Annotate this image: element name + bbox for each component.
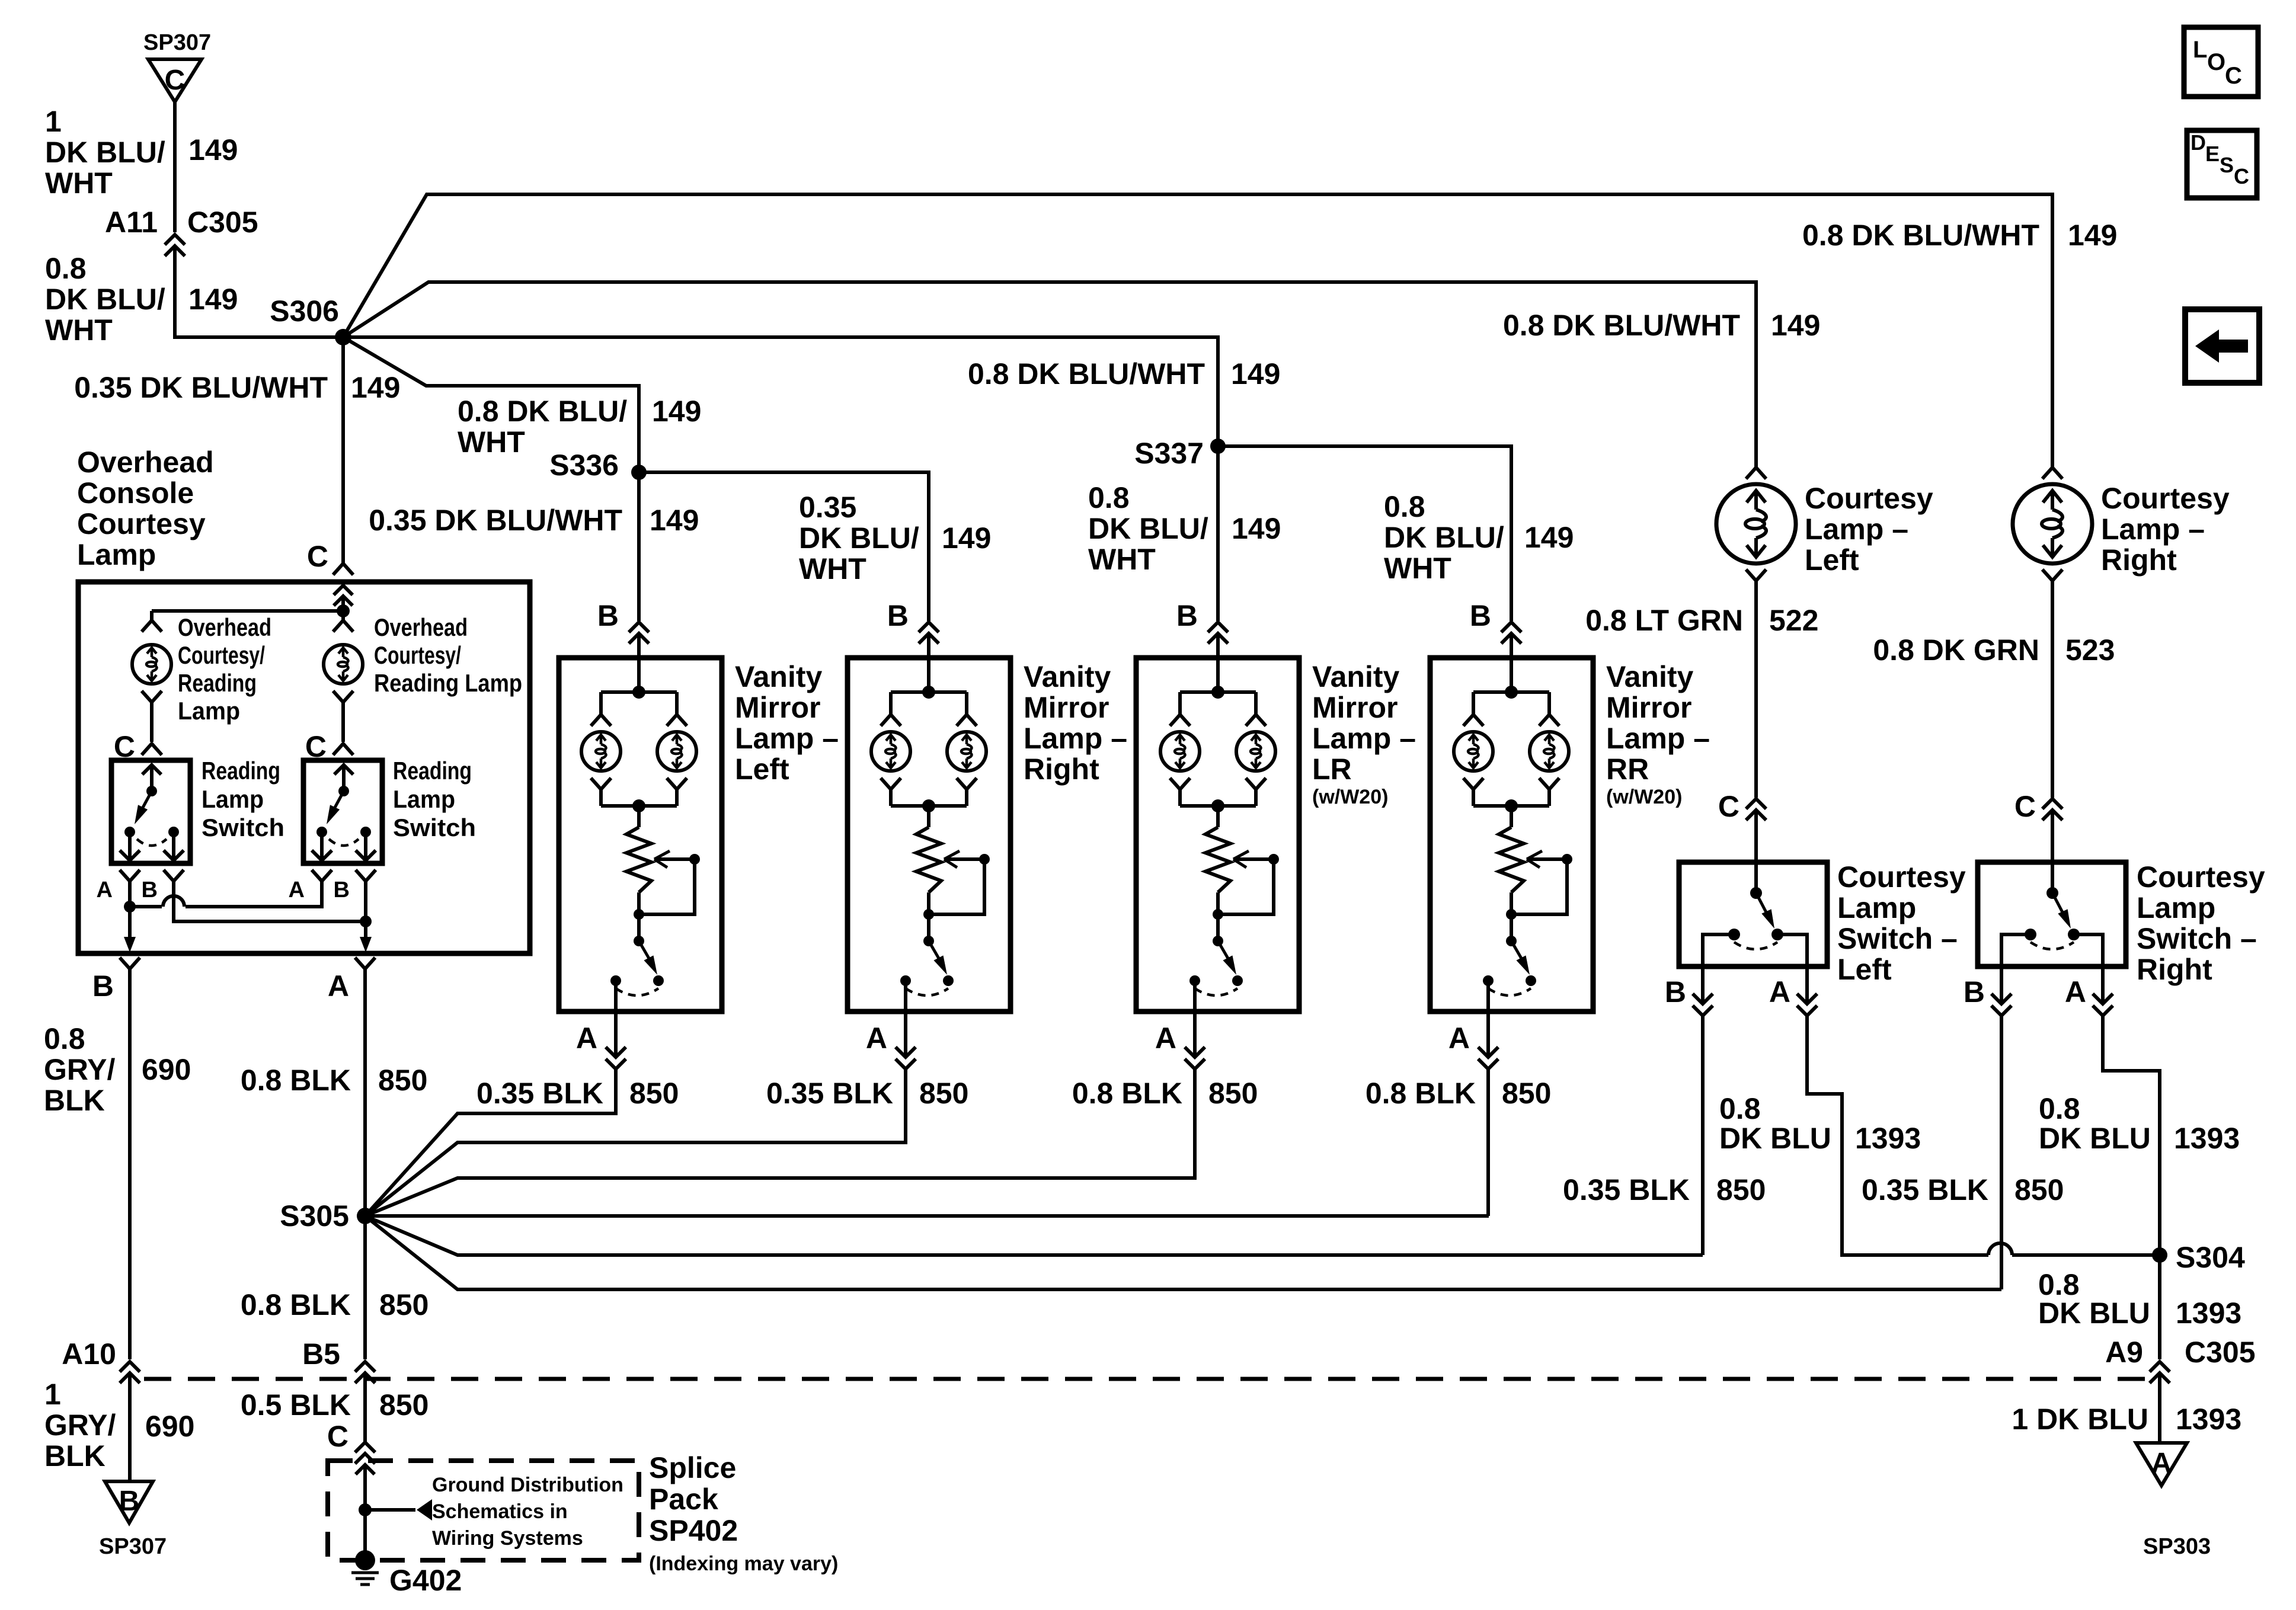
in-line connector C305 pin B5 xyxy=(355,1362,375,1372)
svg-text:A9: A9 xyxy=(2105,1336,2143,1369)
splice junction S337 xyxy=(1210,438,1226,454)
terminal fork below left bulb (LR) xyxy=(1170,778,1190,789)
svg-text:Lamp –: Lamp – xyxy=(1312,722,1416,755)
svg-text:Courtesy: Courtesy xyxy=(2101,482,2230,515)
wire lamp bus (LR) xyxy=(1180,690,1256,694)
connector chevrons pin B (Left) xyxy=(1693,994,1713,1004)
entry chevron into splice pack xyxy=(356,1465,375,1474)
wire C305 to S306 corner xyxy=(175,246,337,337)
node switch common (Right) xyxy=(2046,887,2058,899)
wire to left bulb (LR) xyxy=(1178,692,1182,714)
terminal fork above right bulb (RR) xyxy=(1539,715,1559,726)
svg-text:GRY/: GRY/ xyxy=(44,1053,115,1086)
svg-text:Courtesy: Courtesy xyxy=(1837,860,1966,894)
svg-text:0.8: 0.8 xyxy=(1719,1092,1761,1125)
svg-text:Pack: Pack xyxy=(649,1483,718,1516)
switch common chevron (right reading switch) xyxy=(334,765,353,774)
wire S306 to courtesy lamp left (rail y476) xyxy=(343,282,1756,467)
contact open (RR) xyxy=(1526,975,1536,986)
svg-text:1393: 1393 xyxy=(2174,1122,2240,1155)
wire A9 to SP303 triangle xyxy=(2158,1373,2161,1443)
in-line connector C305 pin A9 xyxy=(2150,1362,2170,1372)
node lower bus junction (Left) xyxy=(632,799,645,812)
wire wiper short (RR) xyxy=(1511,859,1567,914)
wire console pin B exit xyxy=(128,907,132,941)
wire bus to rheostat (LR) xyxy=(1216,806,1220,827)
svg-text:Lamp –: Lamp – xyxy=(735,722,839,755)
lamp bulb left bulb (LR) xyxy=(1160,732,1200,771)
svg-text:Lamp –: Lamp – xyxy=(1606,722,1710,755)
terminal fork above right bulb (Right) xyxy=(957,715,977,726)
splice junction S305 xyxy=(357,1208,373,1224)
svg-text:C305: C305 xyxy=(187,206,258,239)
node wiper top (Right) xyxy=(979,854,990,865)
svg-text:Courtesy: Courtesy xyxy=(2137,860,2265,894)
svg-text:149: 149 xyxy=(1524,521,1574,554)
svg-text:DK BLU/: DK BLU/ xyxy=(799,521,919,555)
terminal fork above right overhead lamp xyxy=(333,620,353,632)
lamp Overhead Courtesy/Reading Lamp (left) xyxy=(132,645,171,684)
svg-text:A: A xyxy=(328,969,349,1003)
svg-text:Overhead: Overhead xyxy=(374,613,468,641)
wire A10 to SP307 triangle xyxy=(128,1373,132,1481)
svg-text:Lamp: Lamp xyxy=(1837,891,1916,924)
contact A (right reading switch) xyxy=(316,827,327,837)
svg-text:Splice: Splice xyxy=(649,1451,736,1484)
wire console A to S305 xyxy=(363,969,367,1216)
wire courtesy lamp Right to switch xyxy=(2051,581,2054,798)
terminal fork above left bulb (LR) xyxy=(1170,715,1190,726)
connector fork left reading switch xyxy=(142,744,162,755)
terminal fork above left bulb (Right) xyxy=(881,715,901,726)
svg-text:C: C xyxy=(2014,790,2036,823)
wire S306 down to overhead console xyxy=(341,337,345,563)
svg-text:523: 523 xyxy=(2065,633,2115,667)
svg-text:Lamp: Lamp xyxy=(77,538,156,571)
svg-text:Mirror: Mirror xyxy=(1024,691,1109,724)
svg-text:Vanity: Vanity xyxy=(1606,660,1693,693)
lamp bulb left bulb (Left) xyxy=(581,732,621,771)
svg-text:0.8 DK BLU/WHT: 0.8 DK BLU/WHT xyxy=(1802,219,2039,252)
terminal fork below right bulb (Left) xyxy=(667,778,687,789)
terminal fork above left overhead lamp xyxy=(142,620,162,632)
wire to right bulb (Left) xyxy=(675,692,679,714)
svg-text:522: 522 xyxy=(1769,604,1818,637)
svg-text:(Indexing may vary): (Indexing may vary) xyxy=(649,1553,838,1575)
node wiper tie (Left) xyxy=(634,909,644,920)
component box Vanity Mirror Lamp RR xyxy=(1430,658,1593,1012)
svg-text:B: B xyxy=(1176,599,1198,632)
svg-text:(w/W20): (w/W20) xyxy=(1606,786,1682,808)
wire below right bulb (Left) xyxy=(675,790,679,806)
svg-text:Courtesy: Courtesy xyxy=(1805,482,1933,515)
svg-text:Mirror: Mirror xyxy=(1312,691,1398,724)
dashed box Splice Pack SP402 xyxy=(328,1461,639,1560)
wire to right bulb (RR) xyxy=(1547,692,1551,714)
svg-text:WHT: WHT xyxy=(1384,552,1451,585)
in-line connector C305 pin A10 xyxy=(120,1362,140,1372)
contact B (Left) xyxy=(1728,929,1740,940)
svg-text:A: A xyxy=(1769,975,1790,1009)
wire contact to pin A (Left) xyxy=(1777,934,1807,1004)
wire courtesy lamp Left to switch xyxy=(1754,581,1758,798)
svg-text:850: 850 xyxy=(1208,1077,1258,1110)
terminal fork below pin A xyxy=(120,870,140,881)
svg-text:A: A xyxy=(866,1022,887,1055)
wire lower bus (Right) xyxy=(891,804,967,808)
svg-text:DK BLU: DK BLU xyxy=(2038,1297,2150,1330)
svg-text:S305: S305 xyxy=(280,1199,349,1233)
contact A (left reading switch) xyxy=(124,827,135,837)
svg-text:B: B xyxy=(1964,975,1985,1009)
svg-text:C: C xyxy=(2234,164,2249,188)
connector chevrons pin B (Right) xyxy=(1991,994,2012,1004)
svg-text:0.8 BLK: 0.8 BLK xyxy=(241,1288,351,1321)
svg-text:Lamp: Lamp xyxy=(202,785,264,813)
node console feed junction xyxy=(337,604,350,617)
wire S305 to vanity LR xyxy=(365,1178,1195,1216)
connector chevrons pin A (Left) xyxy=(606,1047,626,1057)
terminal fork below courtesy lamp Left xyxy=(1746,569,1766,581)
node wiper top (RR) xyxy=(1562,854,1572,865)
node wiper tie (Right) xyxy=(923,909,934,920)
connector chevrons pin C (Right) xyxy=(2042,799,2062,809)
svg-text:C: C xyxy=(1718,790,1739,823)
contact A (Right) xyxy=(2068,929,2080,940)
svg-text:S304: S304 xyxy=(2176,1241,2245,1274)
wire lower bus (LR) xyxy=(1180,804,1256,808)
terminal fork below left overhead lamp xyxy=(142,691,162,702)
svg-text:Lamp: Lamp xyxy=(178,697,240,725)
svg-text:149: 149 xyxy=(2068,219,2117,252)
wire pin B into box (Right) xyxy=(927,633,930,692)
component box Reading Lamp Switch (right) xyxy=(303,760,382,863)
splice junction S336 xyxy=(631,465,647,480)
terminal fork below left bulb (Right) xyxy=(881,778,901,789)
svg-text:A: A xyxy=(576,1022,597,1055)
terminal fork below right bulb (RR) xyxy=(1539,778,1559,789)
terminal fork below right bulb (LR) xyxy=(1246,778,1266,789)
wire S337 to vanity mirror lamp RR xyxy=(1218,446,1511,621)
wire switch common (Left) xyxy=(1754,862,1758,893)
wire rheostat bottom (Right) xyxy=(927,892,930,941)
svg-text:DK BLU: DK BLU xyxy=(2039,1122,2151,1155)
svg-text:(w/W20): (w/W20) xyxy=(1312,786,1388,808)
wire switch common (Right) xyxy=(2051,862,2054,893)
svg-text:DK BLU/: DK BLU/ xyxy=(1088,512,1208,545)
wire below left bulb (Right) xyxy=(889,790,893,806)
connector fork at console pin C xyxy=(333,564,353,575)
wire S336 down to vanity mirror lamp left xyxy=(637,472,641,621)
component box Vanity Mirror Lamp Right xyxy=(848,658,1011,1012)
svg-text:0.35 BLK: 0.35 BLK xyxy=(1563,1173,1690,1206)
svg-text:149: 149 xyxy=(188,283,238,316)
svg-text:C: C xyxy=(2225,63,2242,89)
switch arm (Right) xyxy=(2052,893,2065,918)
svg-text:Reading: Reading xyxy=(202,757,280,785)
connector chevrons pin B (LR) xyxy=(1208,622,1228,632)
node lamp bus junction (Left) xyxy=(632,686,645,699)
node splice pack junction xyxy=(359,1503,372,1516)
node wiper top (LR) xyxy=(1268,854,1279,865)
svg-text:0.35 DK BLU/WHT: 0.35 DK BLU/WHT xyxy=(369,504,622,537)
node switch common (left) xyxy=(146,786,157,796)
svg-text:BLK: BLK xyxy=(44,1439,105,1473)
contact out (LR) xyxy=(1189,975,1200,986)
svg-text:Courtesy/: Courtesy/ xyxy=(374,641,461,669)
node wiper tie (RR) xyxy=(1506,909,1517,920)
wire wiper short (Left) xyxy=(639,859,695,914)
svg-text:850: 850 xyxy=(379,1288,428,1321)
wire left switch A to S304 xyxy=(1807,1016,1988,1255)
svg-text:A: A xyxy=(1155,1022,1176,1055)
svg-text:149: 149 xyxy=(188,133,238,167)
svg-text:SP307: SP307 xyxy=(99,1534,167,1559)
wire bus to rheostat (Left) xyxy=(637,806,641,827)
wire rheostat bottom (LR) xyxy=(1216,892,1220,941)
wire below left bulb (LR) xyxy=(1178,790,1182,806)
wire below right bulb (LR) xyxy=(1254,790,1258,806)
svg-text:Right: Right xyxy=(2137,953,2212,986)
wire to ground G402 xyxy=(363,1510,367,1560)
wire S336 to vanity mirror lamp right xyxy=(639,472,929,621)
console exit arrow (pin A side) xyxy=(360,937,372,952)
svg-text:Switch: Switch xyxy=(393,814,476,841)
svg-text:Courtesy/: Courtesy/ xyxy=(178,641,265,669)
node lamp bus junction (LR) xyxy=(1211,686,1224,699)
svg-text:0.8: 0.8 xyxy=(1384,490,1425,523)
switch arm (Left) xyxy=(639,941,652,964)
wire S306 to courtesy lamp right (top rail y328) xyxy=(343,194,2052,467)
contact out (Left) xyxy=(610,975,621,986)
node switch pivot (Right) xyxy=(923,936,934,946)
terminal fork below pin B xyxy=(164,870,184,881)
wire pin A to ground rail (LR) xyxy=(458,1069,1195,1178)
svg-text:0.35 DK BLU/WHT: 0.35 DK BLU/WHT xyxy=(74,371,328,404)
wire lower bus (RR) xyxy=(1473,804,1549,808)
node switch pivot (RR) xyxy=(1506,936,1517,946)
svg-text:0.8 DK GRN: 0.8 DK GRN xyxy=(1873,633,2039,667)
svg-text:850: 850 xyxy=(379,1388,428,1422)
svg-text:SP303: SP303 xyxy=(2143,1534,2211,1559)
svg-text:0.8 DK BLU/: 0.8 DK BLU/ xyxy=(458,395,627,428)
splice junction S304 xyxy=(2152,1247,2167,1263)
wire rheostat bottom (Left) xyxy=(637,892,641,941)
connector chevrons pin A (Left) xyxy=(1797,994,1817,1004)
switch arm (LR) xyxy=(1218,941,1231,964)
node A-tie junction xyxy=(124,901,136,913)
contact B (left reading switch) xyxy=(168,827,179,837)
svg-text:C: C xyxy=(165,65,186,96)
component box Vanity Mirror Lamp LR xyxy=(1136,658,1299,1012)
svg-text:Lamp: Lamp xyxy=(393,785,455,813)
svg-text:1 DK BLU: 1 DK BLU xyxy=(2012,1403,2148,1436)
svg-text:0.35 BLK: 0.35 BLK xyxy=(766,1077,893,1110)
wire pin A to ground rail (Right) xyxy=(458,1069,906,1142)
svg-text:Right: Right xyxy=(1024,753,1099,786)
svg-text:S337: S337 xyxy=(1134,437,1204,470)
svg-text:Left: Left xyxy=(1837,953,1892,986)
svg-text:Wiring Systems: Wiring Systems xyxy=(432,1527,583,1550)
wire to right bulb (LR) xyxy=(1254,692,1258,714)
wire S337 down to vanity mirror lamp LR xyxy=(1216,446,1220,621)
svg-text:0.35 BLK: 0.35 BLK xyxy=(477,1077,603,1110)
svg-text:B: B xyxy=(334,878,350,902)
connector chevrons pin A (Right) xyxy=(896,1047,916,1057)
switch arm (RR) xyxy=(1511,941,1524,964)
switch common chevron (left reading switch) xyxy=(142,765,161,774)
lamp Overhead Courtesy/Reading Lamp (right) xyxy=(324,645,363,684)
terminal fork console pin B xyxy=(120,958,140,969)
wire S305 down to C305 xyxy=(363,1216,367,1359)
svg-text:Lamp –: Lamp – xyxy=(1805,513,1908,546)
terminal fork above courtesy lamp Left xyxy=(1746,468,1766,479)
lamp bulb right bulb (RR) xyxy=(1530,732,1569,771)
wire pin B into box (LR) xyxy=(1216,633,1220,692)
ground symbol G402 xyxy=(351,1571,379,1574)
connector chevrons pin B (RR) xyxy=(1501,622,1521,632)
svg-text:1: 1 xyxy=(45,105,62,138)
svg-text:Mirror: Mirror xyxy=(1606,691,1691,724)
dashed connector line C305 xyxy=(144,1377,2145,1381)
node lower bus junction (Right) xyxy=(922,799,935,812)
svg-text:B: B xyxy=(1470,599,1491,632)
wire B5 to splice pack xyxy=(363,1373,367,1442)
connector chevrons pin A (LR) xyxy=(1185,1047,1205,1057)
svg-text:S: S xyxy=(2220,153,2234,177)
dashed throw arc (Left) xyxy=(616,988,658,996)
lamp bulb left bulb (Right) xyxy=(871,732,910,771)
svg-text:Console: Console xyxy=(77,476,194,510)
svg-text:A: A xyxy=(1448,1022,1470,1055)
reference box DESC xyxy=(2187,130,2257,198)
wire to left bulb (RR) xyxy=(1472,692,1475,714)
svg-text:SP307: SP307 xyxy=(143,30,211,55)
wire S306 to S337 (rail y569) xyxy=(343,337,1218,446)
terminal fork above right bulb (Left) xyxy=(667,715,687,726)
wire console internal bus xyxy=(152,609,343,613)
connector fork right reading switch xyxy=(333,744,353,755)
svg-text:149: 149 xyxy=(652,395,701,428)
svg-text:C: C xyxy=(327,1420,348,1453)
wire S305 to right courtesy switch B xyxy=(365,1216,2001,1289)
wire left switch B to ground rail xyxy=(1701,1016,1705,1255)
wire below left bulb (Left) xyxy=(599,790,603,806)
contact open (Left) xyxy=(653,975,664,986)
svg-text:0.8: 0.8 xyxy=(45,252,87,285)
wire pin C into switch box (Right) xyxy=(2051,810,2054,862)
svg-text:Mirror: Mirror xyxy=(735,691,820,724)
reference box back-arrow xyxy=(2185,309,2259,383)
contact out (Right) xyxy=(900,975,911,986)
wire lamp bus (Right) xyxy=(891,690,967,694)
svg-text:L: L xyxy=(2193,37,2207,63)
svg-text:Lamp –: Lamp – xyxy=(1024,722,1127,755)
node switch pivot (LR) xyxy=(1213,936,1223,946)
switch arm (Right) xyxy=(929,941,942,964)
connector chevrons pin A (Right) xyxy=(2093,994,2113,1004)
connector chevrons pin B (Right) xyxy=(919,622,939,632)
svg-text:0.8 BLK: 0.8 BLK xyxy=(1366,1077,1476,1110)
wire into S304 xyxy=(2012,1253,2160,1257)
off-page triangle connector SP307-C (top) xyxy=(148,59,202,102)
connector chevrons pin C (Left) xyxy=(1746,799,1766,809)
connector chevrons pin A (RR) xyxy=(1478,1047,1498,1057)
wire switch A pins tie line xyxy=(128,882,132,907)
svg-text:S306: S306 xyxy=(270,295,339,328)
svg-text:DK BLU/: DK BLU/ xyxy=(45,136,165,169)
wire below right bulb (Right) xyxy=(965,790,968,806)
lamp bulb right bulb (Left) xyxy=(657,732,696,771)
svg-text:WHT: WHT xyxy=(45,313,113,347)
switch arm (right reading switch) xyxy=(332,791,344,813)
svg-text:Switch: Switch xyxy=(202,814,284,841)
svg-text:149: 149 xyxy=(1232,512,1281,545)
wire to right overhead lamp xyxy=(341,611,345,620)
wire pin A exit (Left) xyxy=(614,981,618,1057)
wire pin A exit (LR) xyxy=(1193,981,1197,1057)
component box Vanity Mirror Lamp Left xyxy=(559,658,722,1012)
wire right switch A to S304 xyxy=(2103,1016,2160,1255)
ground G402 terminal dot xyxy=(355,1550,375,1570)
wire pin C into switch box (Left) xyxy=(1754,810,1758,862)
wire rheostat bottom (RR) xyxy=(1510,892,1513,941)
svg-text:B: B xyxy=(597,599,619,632)
wire SP307 to C305 connector (x295) xyxy=(173,102,177,232)
component box Courtesy Lamp Switch Left xyxy=(1679,862,1827,966)
wire to left bulb (Left) xyxy=(599,692,603,714)
terminal fork below left bulb (RR) xyxy=(1463,778,1483,789)
wire to left overhead lamp xyxy=(150,611,154,620)
dashed throw arc (Left) xyxy=(1734,942,1777,949)
terminal fork above left bulb (RR) xyxy=(1463,715,1483,726)
svg-text:A: A xyxy=(2065,975,2086,1009)
svg-text:GRY/: GRY/ xyxy=(44,1409,116,1442)
component box Reading Lamp Switch (left) xyxy=(111,760,190,863)
svg-text:Overhead: Overhead xyxy=(178,613,271,641)
wire S305 to vanity right xyxy=(365,1142,906,1216)
svg-text:DK BLU: DK BLU xyxy=(1719,1122,1831,1155)
svg-text:Reading: Reading xyxy=(393,757,472,785)
svg-text:DK BLU/: DK BLU/ xyxy=(45,283,165,316)
wire bus to rheostat (RR) xyxy=(1510,806,1513,827)
svg-text:A: A xyxy=(97,878,113,902)
svg-text:A11: A11 xyxy=(105,206,158,239)
svg-text:850: 850 xyxy=(2014,1173,2064,1206)
svg-text:E: E xyxy=(2205,142,2220,166)
wire pin A exit (Right) xyxy=(904,981,907,1057)
svg-text:Courtesy: Courtesy xyxy=(77,507,206,540)
svg-text:0.8 LT GRN: 0.8 LT GRN xyxy=(1585,604,1743,637)
node lower bus junction (LR) xyxy=(1211,799,1224,812)
svg-text:BLK: BLK xyxy=(44,1084,105,1117)
off-page triangle connector SP303-A xyxy=(2136,1443,2187,1486)
svg-text:Reading Lamp: Reading Lamp xyxy=(374,669,522,697)
contact A (Left) xyxy=(1771,929,1783,940)
svg-text:Vanity: Vanity xyxy=(735,660,822,693)
svg-text:0.35 BLK: 0.35 BLK xyxy=(1862,1173,1988,1206)
terminal fork below right pin B xyxy=(356,870,376,881)
node switch common (Left) xyxy=(1750,887,1762,899)
svg-text:850: 850 xyxy=(629,1077,679,1110)
in-line connector C305 pin A11 xyxy=(165,235,185,245)
component box Courtesy Lamp Switch Right xyxy=(1978,862,2126,966)
lamp Courtesy Lamp Left xyxy=(1716,484,1796,564)
svg-text:B: B xyxy=(142,878,158,902)
wire lamp bus (Left) xyxy=(601,690,677,694)
wire lamp bus (RR) xyxy=(1473,690,1549,694)
wire pin B into box (Left) xyxy=(637,633,641,692)
